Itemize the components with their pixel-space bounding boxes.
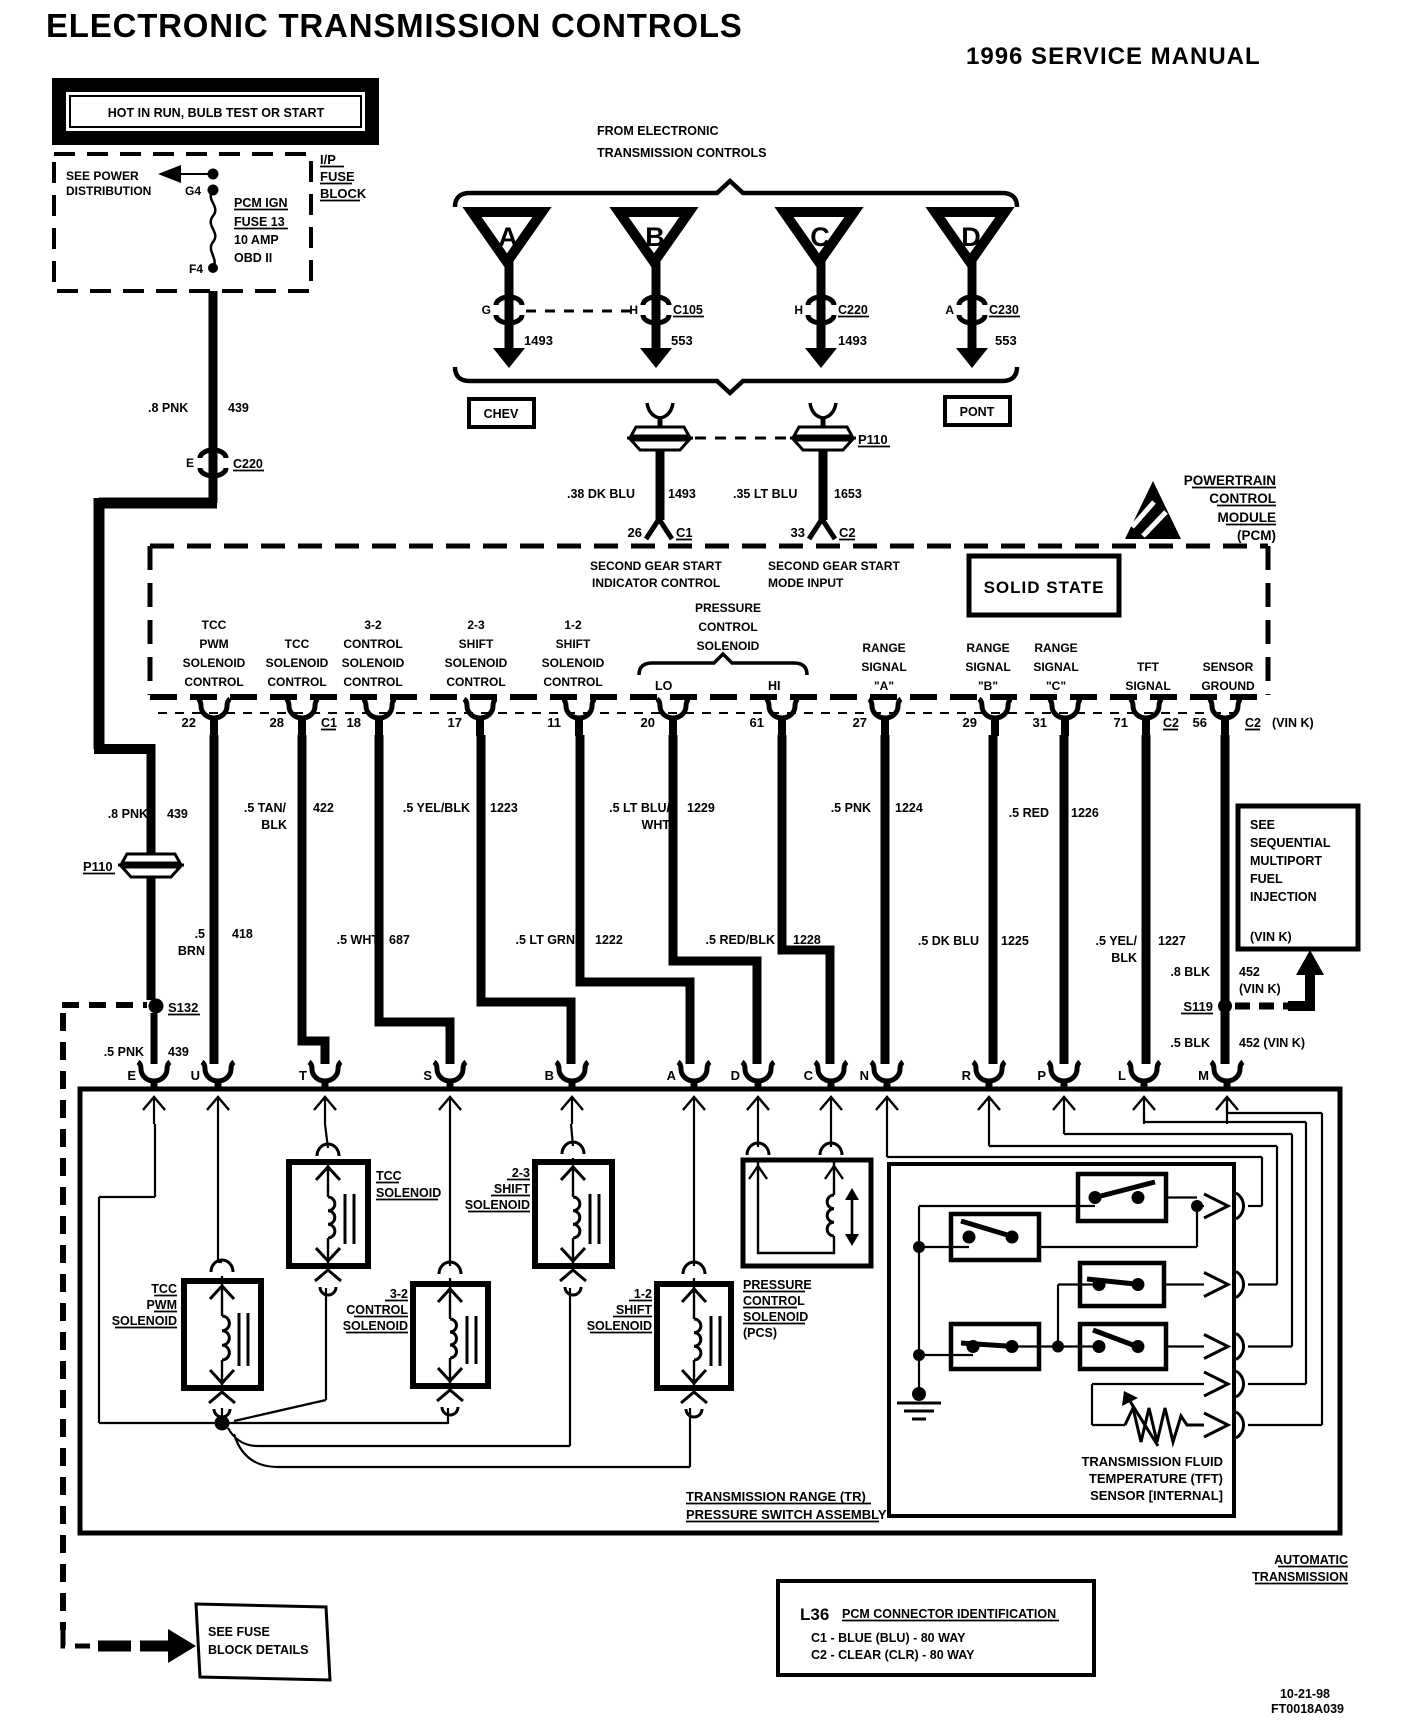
svg-text:1226: 1226: [1071, 806, 1099, 820]
svg-text:SHIFT: SHIFT: [494, 1182, 530, 1196]
svg-text:TCC: TCC: [285, 637, 310, 651]
svg-text:PCM IGN: PCM IGN: [234, 196, 287, 210]
svg-text:61: 61: [750, 715, 764, 730]
svg-text:SOLENOID: SOLENOID: [587, 1319, 652, 1333]
svg-text:A: A: [667, 1068, 677, 1083]
svg-text:SIGNAL: SIGNAL: [1033, 660, 1078, 674]
svg-text:SHIFT: SHIFT: [616, 1303, 652, 1317]
svg-text:B: B: [545, 1068, 554, 1083]
svg-text:OBD II: OBD II: [234, 251, 272, 265]
svg-text:10-21-98: 10-21-98: [1280, 1687, 1330, 1701]
svg-text:L: L: [1118, 1068, 1126, 1083]
svg-text:S132: S132: [168, 1000, 198, 1015]
svg-text:SOLENOID: SOLENOID: [465, 1198, 530, 1212]
svg-text:LO: LO: [655, 679, 673, 693]
svg-text:BRN: BRN: [178, 944, 205, 958]
svg-text:C105: C105: [673, 303, 703, 317]
svg-text:TRANSMISSION FLUID: TRANSMISSION FLUID: [1081, 1454, 1223, 1469]
svg-text:RANGE: RANGE: [966, 641, 1009, 655]
svg-text:BLK: BLK: [1111, 951, 1137, 965]
svg-text:INJECTION: INJECTION: [1250, 890, 1317, 904]
svg-text:RANGE: RANGE: [1034, 641, 1077, 655]
svg-text:"B": "B": [978, 679, 998, 693]
svg-text:SOLENOID: SOLENOID: [376, 1186, 441, 1200]
svg-text:SHIFT: SHIFT: [556, 637, 591, 651]
svg-text:S119: S119: [1183, 999, 1213, 1014]
svg-text:PWM: PWM: [199, 637, 228, 651]
svg-text:F4: F4: [189, 262, 203, 276]
svg-text:3-2: 3-2: [390, 1287, 408, 1301]
svg-text:439: 439: [228, 401, 249, 415]
svg-text:2-3: 2-3: [512, 1166, 530, 1180]
svg-text:PRESSURE SWITCH ASSEMBLY: PRESSURE SWITCH ASSEMBLY: [686, 1507, 887, 1522]
svg-text:28: 28: [270, 715, 284, 730]
svg-text:A: A: [498, 222, 518, 252]
svg-text:HOT IN RUN, BULB TEST OR START: HOT IN RUN, BULB TEST OR START: [108, 106, 325, 120]
svg-text:TRANSMISSION CONTROLS: TRANSMISSION CONTROLS: [597, 146, 766, 160]
svg-text:418: 418: [232, 927, 253, 941]
svg-text:3-2: 3-2: [364, 618, 382, 632]
svg-text:PWM: PWM: [146, 1298, 177, 1312]
svg-text:SEE POWER: SEE POWER: [66, 169, 139, 183]
svg-text:G4: G4: [185, 184, 201, 198]
svg-text:H: H: [794, 303, 803, 317]
svg-text:MODULE: MODULE: [1218, 510, 1277, 525]
svg-text:AUTOMATIC: AUTOMATIC: [1274, 1553, 1348, 1567]
svg-text:.38 DK BLU: .38 DK BLU: [567, 487, 635, 501]
svg-text:CONTROL: CONTROL: [543, 675, 602, 689]
svg-text:1-2: 1-2: [634, 1287, 652, 1301]
svg-text:C2: C2: [839, 525, 856, 540]
svg-text:C2 - CLEAR (CLR) - 80 WAY: C2 - CLEAR (CLR) - 80 WAY: [811, 1648, 975, 1662]
svg-text:U: U: [191, 1068, 200, 1083]
svg-text:SEE: SEE: [1250, 818, 1275, 832]
svg-text:.35 LT BLU: .35 LT BLU: [733, 487, 797, 501]
svg-text:HI: HI: [768, 679, 781, 693]
svg-text:.5 PNK: .5 PNK: [831, 801, 871, 815]
svg-text:(VIN K): (VIN K): [1250, 930, 1292, 944]
svg-text:C1: C1: [321, 716, 337, 730]
svg-text:TCC: TCC: [151, 1282, 177, 1296]
svg-text:TCC: TCC: [376, 1169, 402, 1183]
svg-text:.5 LT BLU/: .5 LT BLU/: [609, 801, 670, 815]
svg-text:1996 SERVICE MANUAL: 1996 SERVICE MANUAL: [966, 43, 1261, 70]
svg-text:BLK: BLK: [261, 818, 287, 832]
svg-text:.5 TAN/: .5 TAN/: [244, 801, 287, 815]
svg-text:FUSE: FUSE: [320, 169, 355, 184]
svg-text:(VIN K): (VIN K): [1239, 982, 1281, 996]
svg-text:33: 33: [791, 525, 805, 540]
svg-text:CONTROL: CONTROL: [446, 675, 505, 689]
svg-text:.5 PNK: .5 PNK: [104, 1045, 144, 1059]
svg-text:.5 LT GRN: .5 LT GRN: [516, 933, 576, 947]
svg-text:SOLENOID: SOLENOID: [743, 1310, 808, 1324]
svg-text:SOLENOID: SOLENOID: [697, 639, 760, 653]
svg-text:SIGNAL: SIGNAL: [1125, 679, 1170, 693]
svg-text:TRANSMISSION RANGE (TR): TRANSMISSION RANGE (TR): [686, 1489, 866, 1504]
svg-text:FT0018A039: FT0018A039: [1271, 1702, 1344, 1716]
svg-text:SENSOR [INTERNAL]: SENSOR [INTERNAL]: [1090, 1488, 1223, 1503]
svg-text:11: 11: [547, 715, 561, 730]
svg-text:C220: C220: [233, 457, 263, 471]
svg-text:TCC: TCC: [202, 618, 227, 632]
svg-text:"A": "A": [874, 679, 894, 693]
svg-text:.5 RED: .5 RED: [1009, 806, 1049, 820]
svg-text:TRANSMISSION: TRANSMISSION: [1252, 1570, 1348, 1584]
svg-text:1-2: 1-2: [564, 618, 582, 632]
svg-text:(PCS): (PCS): [743, 1326, 777, 1340]
svg-text:CONTROL: CONTROL: [346, 1303, 408, 1317]
svg-text:MODE INPUT: MODE INPUT: [768, 576, 844, 590]
svg-text:SOLENOID: SOLENOID: [112, 1314, 177, 1328]
svg-text:26: 26: [628, 525, 642, 540]
svg-text:I/P: I/P: [320, 152, 336, 167]
svg-text:B: B: [645, 222, 665, 252]
svg-text:C: C: [804, 1068, 814, 1083]
svg-text:.5 WHT: .5 WHT: [337, 933, 380, 947]
svg-text:BLOCK DETAILS: BLOCK DETAILS: [208, 1643, 308, 1657]
svg-text:P: P: [1037, 1068, 1046, 1083]
svg-text:SOLENOID: SOLENOID: [343, 1319, 408, 1333]
svg-text:PRESSURE: PRESSURE: [695, 601, 761, 615]
svg-text:S: S: [423, 1068, 432, 1083]
svg-text:687: 687: [389, 933, 410, 947]
svg-text:2-3: 2-3: [467, 618, 485, 632]
svg-text:MULTIPORT: MULTIPORT: [1250, 854, 1322, 868]
svg-text:29: 29: [963, 715, 977, 730]
svg-text:M: M: [1198, 1068, 1209, 1083]
svg-text:SOLENOID: SOLENOID: [445, 656, 508, 670]
svg-text:SEQUENTIAL: SEQUENTIAL: [1250, 836, 1331, 850]
svg-text:71: 71: [1114, 715, 1128, 730]
svg-text:.5: .5: [195, 927, 205, 941]
svg-text:1223: 1223: [490, 801, 518, 815]
svg-text:1653: 1653: [834, 487, 862, 501]
svg-text:P110: P110: [858, 432, 888, 447]
svg-text:1493: 1493: [838, 333, 867, 348]
svg-text:DISTRIBUTION: DISTRIBUTION: [66, 184, 151, 198]
svg-text:T: T: [299, 1068, 307, 1083]
svg-text:SOLID STATE: SOLID STATE: [984, 578, 1105, 597]
svg-text:22: 22: [182, 715, 196, 730]
svg-text:56: 56: [1193, 715, 1207, 730]
svg-text:CONTROL: CONTROL: [267, 675, 326, 689]
svg-text:1225: 1225: [1001, 934, 1029, 948]
svg-text:C2: C2: [1245, 716, 1261, 730]
svg-text:31: 31: [1033, 715, 1047, 730]
svg-text:452: 452: [1239, 965, 1260, 979]
svg-text:422: 422: [313, 801, 334, 815]
svg-text:(VIN K): (VIN K): [1272, 716, 1314, 730]
svg-text:.8 PNK: .8 PNK: [108, 807, 148, 821]
svg-text:1228: 1228: [793, 933, 821, 947]
svg-text:18: 18: [347, 715, 361, 730]
svg-text:SECOND GEAR START: SECOND GEAR START: [768, 559, 900, 573]
svg-text:.5 BLK: .5 BLK: [1170, 1036, 1210, 1050]
svg-text:FROM ELECTRONIC: FROM ELECTRONIC: [597, 124, 719, 138]
svg-text:.8 PNK: .8 PNK: [148, 401, 188, 415]
svg-text:L36: L36: [800, 1605, 829, 1624]
svg-text:SOLENOID: SOLENOID: [542, 656, 605, 670]
svg-text:1224: 1224: [895, 801, 923, 815]
svg-text:SIGNAL: SIGNAL: [861, 660, 906, 674]
svg-text:C1: C1: [676, 525, 693, 540]
svg-text:WHT: WHT: [642, 818, 671, 832]
svg-text:D: D: [731, 1068, 740, 1083]
svg-text:439: 439: [167, 807, 188, 821]
svg-text:SOLENOID: SOLENOID: [183, 656, 246, 670]
svg-text:GROUND: GROUND: [1201, 679, 1255, 693]
svg-text:1493: 1493: [668, 487, 696, 501]
svg-text:R: R: [962, 1068, 972, 1083]
svg-text:CONTROL: CONTROL: [1209, 491, 1276, 506]
svg-text:1222: 1222: [595, 933, 623, 947]
svg-text:POWERTRAIN: POWERTRAIN: [1184, 473, 1276, 488]
svg-text:PRESSURE: PRESSURE: [743, 1278, 812, 1292]
svg-text:553: 553: [995, 333, 1017, 348]
svg-text:CHEV: CHEV: [484, 407, 519, 421]
svg-text:C230: C230: [989, 303, 1019, 317]
svg-text:17: 17: [448, 715, 462, 730]
svg-text:SECOND GEAR START: SECOND GEAR START: [590, 559, 722, 573]
svg-text:BLOCK: BLOCK: [320, 186, 367, 201]
svg-text:N: N: [860, 1068, 869, 1083]
svg-text:SEE FUSE: SEE FUSE: [208, 1625, 270, 1639]
svg-text:439: 439: [168, 1045, 189, 1059]
svg-text:.5 RED/BLK: .5 RED/BLK: [706, 933, 775, 947]
svg-text:TEMPERATURE (TFT): TEMPERATURE (TFT): [1089, 1471, 1223, 1486]
svg-text:P110: P110: [83, 859, 113, 874]
svg-text:.5 DK BLU: .5 DK BLU: [918, 934, 979, 948]
svg-text:C: C: [810, 222, 830, 252]
svg-text:E: E: [186, 456, 194, 470]
svg-text:1227: 1227: [1158, 934, 1186, 948]
svg-text:RANGE: RANGE: [862, 641, 905, 655]
svg-text:.5 YEL/: .5 YEL/: [1096, 934, 1138, 948]
svg-text:10 AMP: 10 AMP: [234, 233, 279, 247]
svg-text:27: 27: [853, 715, 867, 730]
svg-text:FUEL: FUEL: [1250, 872, 1283, 886]
svg-text:ELECTRONIC TRANSMISSION CONTRO: ELECTRONIC TRANSMISSION CONTROLS: [46, 7, 743, 44]
svg-text:1493: 1493: [524, 333, 553, 348]
svg-text:C220: C220: [838, 303, 868, 317]
svg-text:"C": "C": [1046, 679, 1066, 693]
svg-text:CONTROL: CONTROL: [743, 1294, 805, 1308]
svg-text:CONTROL: CONTROL: [343, 637, 402, 651]
svg-text:FUSE 13: FUSE 13: [234, 215, 285, 229]
svg-text:SHIFT: SHIFT: [459, 637, 494, 651]
svg-text:CONTROL: CONTROL: [698, 620, 757, 634]
svg-text:1229: 1229: [687, 801, 715, 815]
svg-text:553: 553: [671, 333, 693, 348]
svg-text:CONTROL: CONTROL: [343, 675, 402, 689]
svg-text:PCM CONNECTOR IDENTIFICATION: PCM CONNECTOR IDENTIFICATION: [842, 1607, 1056, 1621]
svg-text:D: D: [961, 222, 981, 252]
svg-text:SOLENOID: SOLENOID: [342, 656, 405, 670]
svg-text:TFT: TFT: [1137, 660, 1160, 674]
svg-text:SENSOR: SENSOR: [1203, 660, 1254, 674]
svg-text:G: G: [482, 303, 491, 317]
svg-text:A: A: [945, 303, 954, 317]
svg-text:20: 20: [641, 715, 655, 730]
svg-text:(PCM): (PCM): [1237, 528, 1276, 543]
svg-text:452 (VIN K): 452 (VIN K): [1239, 1036, 1305, 1050]
svg-text:PONT: PONT: [960, 405, 995, 419]
svg-text:SOLENOID: SOLENOID: [266, 656, 329, 670]
svg-text:SIGNAL: SIGNAL: [965, 660, 1010, 674]
svg-text:E: E: [127, 1068, 136, 1083]
svg-text:.8 BLK: .8 BLK: [1170, 965, 1210, 979]
svg-text:CONTROL: CONTROL: [184, 675, 243, 689]
svg-text:.5 YEL/BLK: .5 YEL/BLK: [403, 801, 470, 815]
svg-text:INDICATOR CONTROL: INDICATOR CONTROL: [592, 576, 720, 590]
svg-text:C1 - BLUE (BLU) - 80 WAY: C1 - BLUE (BLU) - 80 WAY: [811, 1631, 966, 1645]
svg-text:C2: C2: [1163, 716, 1179, 730]
